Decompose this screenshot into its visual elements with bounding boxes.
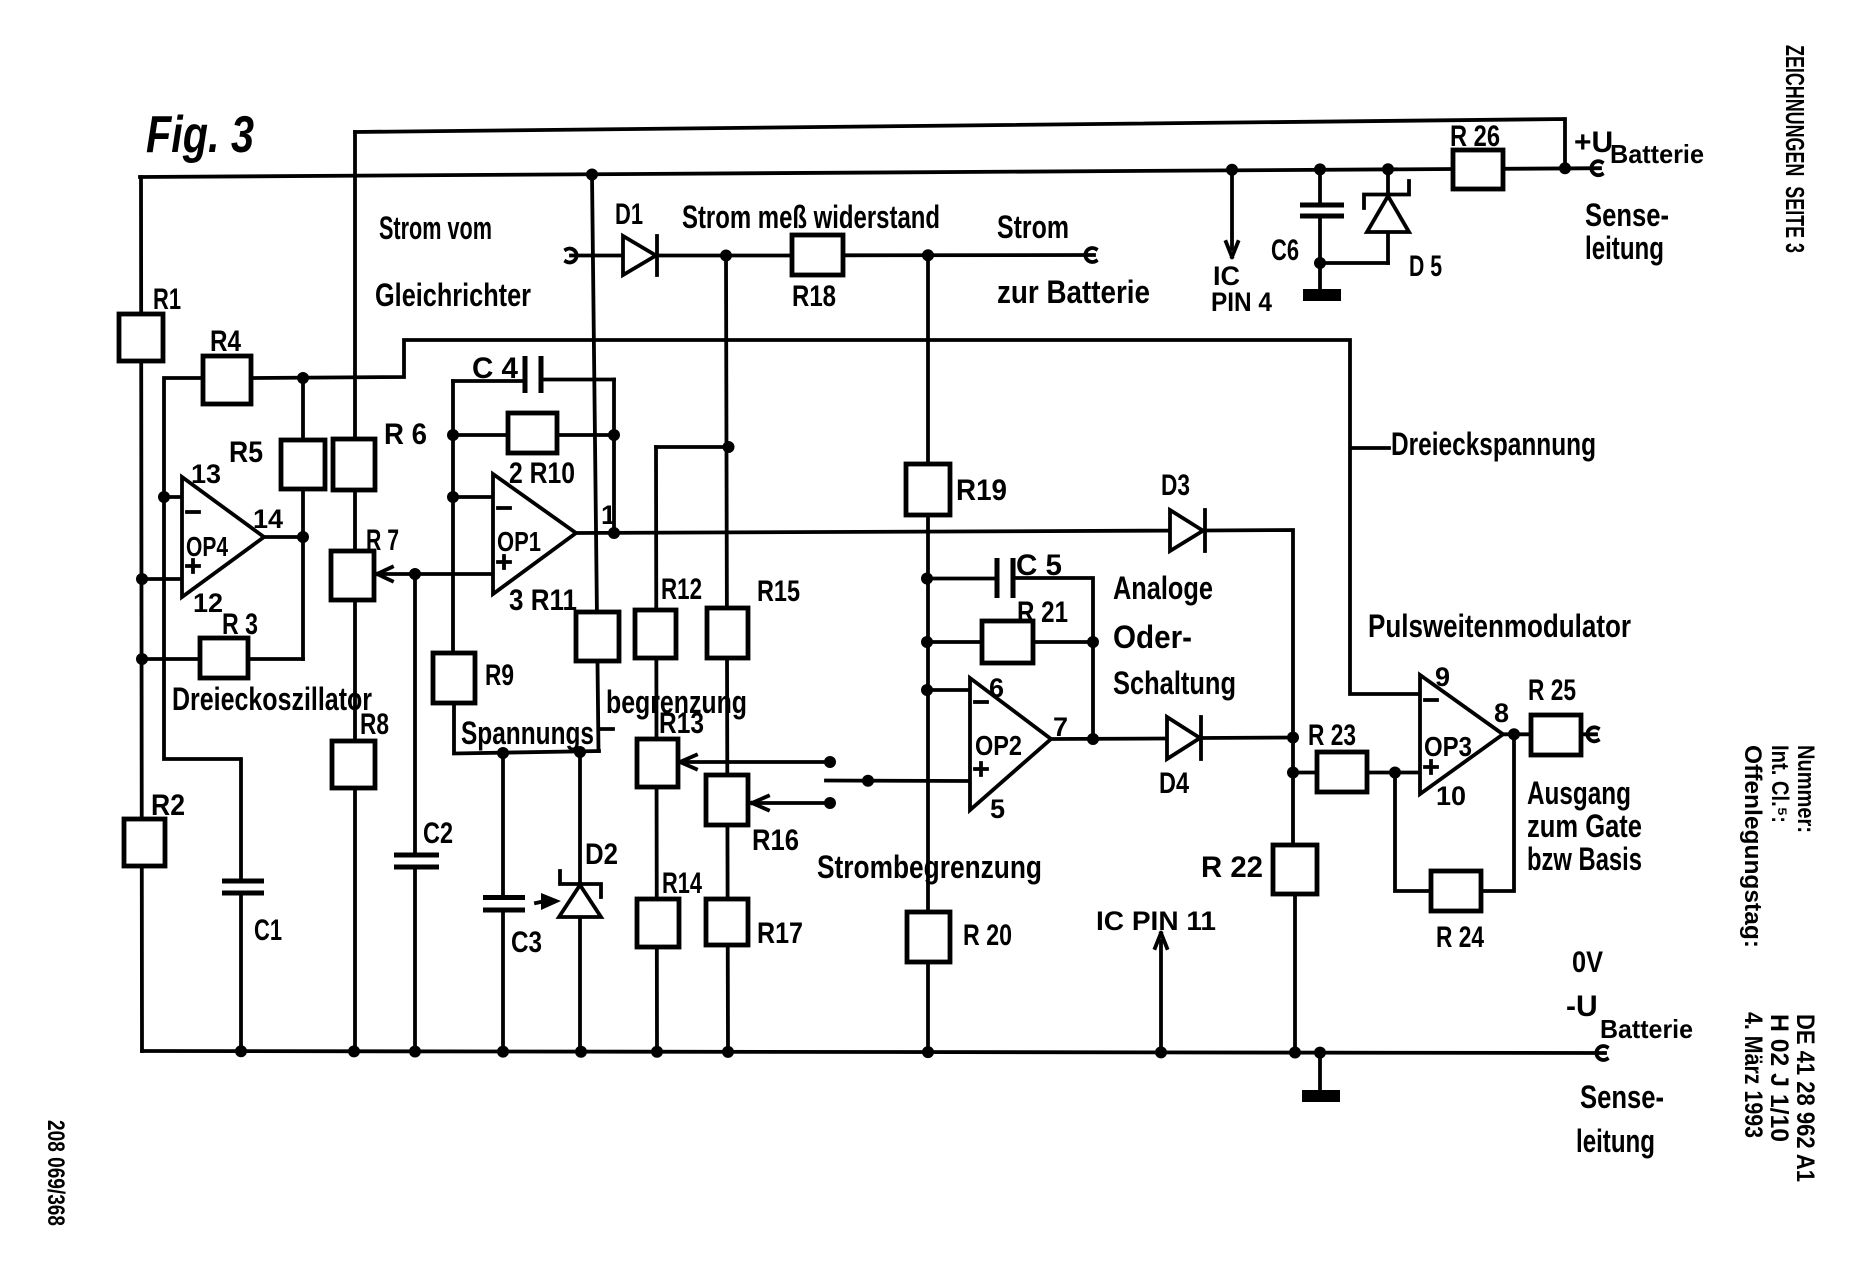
svg-text:zum Gate: zum Gate — [1527, 808, 1642, 844]
svg-text:R5: R5 — [229, 436, 263, 469]
svg-text:leitung: leitung — [1576, 1123, 1655, 1159]
junction R10 right lead — [608, 429, 620, 441]
wire R4 output to triangle-wave line and down to OP3 input — [251, 340, 1420, 694]
terminal rectifier input — [566, 249, 577, 263]
capacitor C5 — [997, 558, 1013, 598]
junction 0V rail IC PIN11 — [1155, 1046, 1167, 1058]
junction C6 bottom to D5 — [1314, 257, 1326, 269]
wire OP2 output to D4 — [1050, 737, 1167, 741]
svg-text:Spannungs: Spannungs — [461, 715, 594, 751]
wire R3 left lead — [142, 657, 200, 661]
terminal R25 output — [1587, 727, 1598, 741]
resistor R2 — [124, 819, 165, 866]
wire D4 cathode to OR node — [1201, 736, 1293, 740]
svg-text:ZEICHNUNGEN SEITE 3: ZEICHNUNGEN SEITE 3 — [1780, 45, 1810, 253]
capacitor C2 — [394, 855, 439, 867]
wire R12 top elbow connection — [656, 445, 729, 449]
svg-text:Strombegrenzung: Strombegrenzung — [817, 849, 1042, 885]
svg-text:Offenlegungstag:: Offenlegungstag: — [1739, 745, 1766, 948]
wire R13 wiper line — [680, 760, 830, 764]
resistor R23 — [1317, 752, 1367, 792]
svg-text:Dreieckoszillator: Dreieckoszillator — [172, 681, 372, 717]
svg-text:OP1: OP1 — [497, 526, 541, 557]
wire OP4 output — [263, 535, 303, 539]
svg-text:Sense-: Sense- — [1585, 197, 1669, 233]
wire R10 right lead — [557, 433, 614, 437]
svg-text:C6: C6 — [1271, 234, 1299, 267]
wire C4 loop top left — [453, 379, 525, 383]
resistor R17 — [706, 899, 748, 945]
svg-text:Nummer:: Nummer: — [1792, 745, 1819, 833]
svg-text:R 24: R 24 — [1436, 921, 1484, 954]
svg-text:Sense-: Sense- — [1580, 1079, 1664, 1115]
junction on OP2 plus input line — [862, 775, 874, 787]
svg-text:R18: R18 — [792, 280, 836, 313]
resistor R24 — [1431, 871, 1481, 911]
svg-text:Batterie: Batterie — [1600, 1014, 1693, 1044]
svg-text:D4: D4 — [1159, 767, 1189, 800]
wire C6 top lead — [1318, 169, 1322, 205]
junction terminal of R16 wiper line — [824, 797, 836, 809]
junction R21 left lead — [921, 636, 933, 648]
svg-text:7: 7 — [1053, 712, 1068, 742]
wire vertical x727 from D1 node through R15 R16 R17 — [726, 256, 728, 1052]
junction D2 top on limiter rail — [574, 746, 586, 758]
diode D1 — [623, 236, 657, 275]
junction R21 right lead — [1087, 636, 1099, 648]
wire C5 right lead and loop right rail — [1013, 578, 1093, 739]
resistor R21 — [982, 621, 1033, 663]
wire C2 vertical from wiper node — [413, 574, 417, 855]
junction +U rail to top feedback line — [1559, 162, 1571, 174]
junction R7 wiper node — [409, 568, 421, 580]
svg-text:zur Batterie: zur Batterie — [997, 274, 1150, 310]
junction C5 left lead — [921, 573, 933, 585]
wire vertical x593 from +U rail through R11 — [592, 175, 599, 752]
resistor R18 — [792, 235, 843, 275]
svg-text:Oder-: Oder- — [1113, 619, 1192, 655]
arrowhead into R16 wiper — [752, 796, 768, 810]
svg-text:R14: R14 — [662, 867, 702, 900]
wire IC PIN11 stub — [1159, 941, 1163, 1052]
svg-text:OP4: OP4 — [186, 531, 228, 562]
svg-text:Strom meß widerstand: Strom meß widerstand — [682, 199, 940, 235]
wire D2 bottom lead — [578, 917, 582, 1052]
svg-text:C3: C3 — [511, 926, 542, 959]
resistor R7 — [331, 551, 374, 600]
svg-text:4. März 1993: 4. März 1993 — [1739, 1012, 1767, 1138]
arrow marker at zener D2 — [536, 893, 561, 910]
svg-text:Fig. 3: Fig. 3 — [146, 106, 254, 164]
wire R25 output lead — [1581, 732, 1596, 736]
junction OP3 output — [1508, 728, 1520, 740]
svg-text:R16: R16 — [752, 824, 799, 857]
svg-text:Schaltung: Schaltung — [1113, 665, 1236, 701]
junction terminal of R13 wiper line — [824, 756, 836, 768]
svg-text:bzw Basis: bzw Basis — [1527, 841, 1642, 877]
wire C4 loop top right — [541, 378, 614, 382]
wire R4 left lead and vertical to OP4 inverting input and C1 — [164, 378, 241, 881]
svg-text:-U: -U — [1566, 990, 1598, 1023]
junction OP2 inverting input — [921, 684, 933, 696]
svg-text:D 5: D 5 — [1409, 250, 1442, 283]
resistor R19 — [906, 464, 950, 515]
svg-text:1: 1 — [601, 500, 616, 530]
wire +U battery rail (right of R26) — [1503, 166, 1600, 170]
svg-text:Gleichrichter: Gleichrichter — [375, 277, 531, 313]
junction OP4 output — [297, 531, 309, 543]
wire C2 bottom lead — [413, 867, 417, 1052]
svg-text:R 25: R 25 — [1528, 674, 1576, 707]
wire D1 cathode to R18 — [657, 254, 792, 258]
wire OP1 output line to D3 and down to analog OR node — [575, 531, 1170, 533]
wire C4 loop left rail down through R9 — [451, 381, 455, 655]
resistor R9 — [433, 653, 475, 703]
wire OP1 non-inverting input from R7 wiper node — [415, 572, 494, 576]
junction R4 to R5 node — [297, 372, 309, 384]
resistor R12 — [635, 610, 676, 658]
wire bottom 0V rail — [142, 1051, 1605, 1053]
junction OP2 output — [1087, 733, 1099, 745]
junction OP1 output — [608, 527, 620, 539]
arrowhead IC PIN4 down — [1226, 242, 1238, 257]
arrowhead into R7 wiper — [377, 567, 392, 581]
svg-text:Analoge: Analoge — [1113, 570, 1213, 606]
wire OP1 inverting input — [453, 495, 494, 499]
wire R21 left lead — [927, 640, 982, 644]
svg-text:R 26: R 26 — [1450, 120, 1500, 153]
terminal battery current output — [1085, 248, 1096, 262]
svg-text:10: 10 — [1436, 781, 1466, 811]
svg-text:9: 9 — [1435, 662, 1450, 692]
wire R10 left lead — [453, 433, 508, 437]
wire OP4 non-inverting input — [142, 577, 183, 581]
wire vertical x657 through R12 R13 R14 — [656, 447, 657, 1052]
junction OP4 inverting input — [158, 491, 170, 503]
junction OP1 inverting input — [447, 491, 459, 503]
svg-text:PIN 4: PIN 4 — [1211, 287, 1272, 317]
wire vertical x355 through R6 R7 R8 — [353, 132, 357, 1051]
svg-text:H 02 J 1/10: H 02 J 1/10 — [1765, 1014, 1793, 1142]
op-amp OP1 — [493, 474, 576, 594]
wire IC PIN4 stub — [1230, 170, 1234, 249]
wire R9 bottom lead and voltage-limit rail — [454, 655, 599, 754]
resistor R1 — [119, 314, 163, 361]
zener diode D2 — [559, 871, 601, 917]
svg-text:R 3: R 3 — [222, 608, 258, 641]
svg-text:6: 6 — [989, 673, 1004, 703]
wire C1 bottom lead — [239, 893, 243, 1051]
junction 0V rail R20 — [922, 1046, 934, 1058]
svg-text:R15: R15 — [757, 575, 800, 608]
junction R18 output node — [922, 249, 934, 261]
svg-text:13: 13 — [191, 459, 221, 489]
svg-text:R 21: R 21 — [1017, 596, 1068, 629]
resistor R26 — [1453, 150, 1503, 189]
wire OP3 output to R25 — [1502, 732, 1531, 736]
wire OP4 inverting input — [164, 495, 183, 499]
wire C3 bottom lead — [501, 910, 505, 1052]
svg-text:R9: R9 — [485, 659, 514, 692]
svg-text:C 5: C 5 — [1016, 549, 1062, 582]
svg-text:14: 14 — [253, 504, 283, 534]
svg-text:+U: +U — [1574, 126, 1613, 159]
terminal bottom rail end — [1596, 1046, 1607, 1060]
resistor R3 — [200, 638, 248, 678]
resistor R8 — [332, 741, 375, 788]
svg-text:Pulsweitenmodulator: Pulsweitenmodulator — [1368, 608, 1631, 644]
junction 0V rail C1 — [235, 1045, 247, 1057]
wire R24 right lead up to OP3 output — [1481, 734, 1514, 891]
svg-text:Strom vom: Strom vom — [379, 210, 492, 246]
svg-text:R 23: R 23 — [1308, 719, 1356, 752]
op-amp OP4 — [182, 477, 264, 597]
svg-text:R 7: R 7 — [366, 524, 399, 557]
resistor R20 — [907, 912, 950, 962]
junction analog OR node D4 — [1287, 732, 1299, 744]
junction D1 cathode node — [720, 250, 732, 262]
wire tick to Dreieckspannung label — [1352, 446, 1389, 450]
wire C6 bottom lead to ground and D5 — [1318, 216, 1322, 288]
capacitor C4 — [525, 356, 541, 393]
svg-text:R 6: R 6 — [384, 418, 427, 451]
junction +U rail to IC PIN4 — [1226, 164, 1238, 176]
wire C5 left lead — [927, 577, 997, 581]
svg-text:2 R10: 2 R10 — [509, 457, 575, 490]
resistor R13 — [637, 739, 678, 787]
wire top feedback line from node at x355 to upper right corner — [355, 119, 1565, 168]
svg-text:208 069/368: 208 069/368 — [42, 1120, 69, 1226]
ground near C6 — [1303, 289, 1341, 301]
svg-text:3 R11: 3 R11 — [509, 584, 577, 617]
svg-text:R 22: R 22 — [1201, 851, 1263, 884]
diode D4 — [1167, 717, 1201, 759]
junction OP3 plus input node — [1389, 767, 1401, 779]
svg-text:IC PIN 11: IC PIN 11 — [1096, 906, 1216, 936]
svg-text:leitung: leitung — [1585, 230, 1664, 266]
wire vertical x303 through R5 — [301, 378, 305, 659]
junction R10 left lead — [447, 429, 459, 441]
wire OP2 inverting input — [927, 688, 971, 692]
junction R3 left node — [136, 653, 148, 665]
svg-text:D2: D2 — [585, 838, 618, 871]
resistor R5 — [281, 440, 325, 489]
resistor R10 — [508, 413, 557, 453]
arrowhead IC PIN11 up — [1155, 933, 1167, 948]
wire D5 bottom lead — [1386, 231, 1390, 263]
wire R21 right lead — [1033, 640, 1093, 644]
zener diode D5 — [1364, 181, 1409, 232]
wire OP2 non-inverting input line — [826, 779, 971, 783]
resistor R22 — [1273, 845, 1317, 894]
svg-text:R 20: R 20 — [963, 919, 1012, 952]
wire C4 loop right rail down to OP1 output — [612, 380, 616, 534]
resistor R6 — [333, 439, 375, 490]
junction 0V rail R22 — [1289, 1047, 1301, 1059]
capacitor C6 — [1300, 205, 1344, 216]
junction R23 left node — [1287, 767, 1299, 779]
resistor R11 — [576, 612, 619, 661]
junction 0V rail C3 — [497, 1046, 509, 1058]
junction R12 top to x727 vertical — [723, 441, 735, 453]
svg-text:D3: D3 — [1161, 469, 1190, 502]
resistor R15 — [707, 608, 748, 658]
wire C3 vertical — [501, 753, 505, 897]
svg-text:Dreieckspannung: Dreieckspannung — [1391, 426, 1596, 462]
arrowhead into R13 wiper — [680, 755, 696, 769]
wire D3 cathode to right corner down to D4 node and R22 — [1205, 530, 1293, 845]
wire C6/D5 bottom link — [1320, 261, 1388, 265]
wire +U battery rail (left part) — [140, 169, 1453, 177]
wire R18 to battery current terminal — [843, 253, 1094, 257]
junction +U rail to R11 branch — [586, 169, 598, 181]
capacitor C3 — [483, 898, 525, 911]
resistor R25 — [1531, 715, 1581, 755]
wire R23 left lead — [1293, 771, 1317, 775]
svg-text:R12: R12 — [661, 573, 702, 606]
junction +U rail to D5 — [1382, 163, 1394, 175]
svg-text:begrenzung: begrenzung — [606, 684, 747, 720]
svg-text:5: 5 — [990, 794, 1005, 824]
wire R22 bottom lead — [1293, 894, 1297, 1053]
svg-text:R17: R17 — [757, 917, 803, 950]
wire D5 top lead — [1386, 169, 1390, 195]
svg-text:DE 41 28 962 A1: DE 41 28 962 A1 — [1791, 1014, 1819, 1182]
junction C3 top on limiter rail — [497, 747, 509, 759]
wire R16 wiper line — [752, 801, 830, 805]
wire R23 right lead to OP3 non-inverting input — [1367, 771, 1420, 775]
svg-text:C 4: C 4 — [472, 352, 518, 385]
svg-text:Ausgang: Ausgang — [1527, 775, 1631, 811]
capacitor C1 — [222, 881, 264, 893]
svg-text:12: 12 — [193, 588, 223, 618]
wire rectifier input terminal to D1 — [571, 254, 623, 258]
svg-text:8: 8 — [1494, 698, 1509, 728]
svg-text:D1: D1 — [615, 198, 643, 231]
junction OP4 non-inverting input — [136, 573, 148, 585]
terminal +U battery — [1591, 161, 1602, 175]
wire D2 vertical — [578, 752, 582, 884]
svg-text:OP2: OP2 — [975, 730, 1022, 761]
ground at bottom rail — [1302, 1090, 1340, 1102]
wire R3 right lead — [248, 657, 303, 661]
svg-text:C2: C2 — [423, 817, 453, 850]
wire R7 wiper — [380, 572, 415, 576]
svg-text:OP3: OP3 — [1424, 731, 1472, 762]
op-amp OP3 — [1420, 675, 1503, 794]
wire left main vertical through R1 R2 — [141, 177, 142, 1051]
svg-text:R1: R1 — [153, 283, 181, 316]
op-amp OP2 — [970, 678, 1051, 810]
junction 0V rail C2 — [409, 1046, 421, 1058]
resistor R4 — [203, 356, 251, 404]
svg-text:Int. Cl.⁵:: Int. Cl.⁵: — [1766, 745, 1793, 823]
junction +U rail to C6 — [1314, 163, 1326, 175]
svg-text:Batterie: Batterie — [1610, 139, 1704, 169]
junction 0V rail R14 — [651, 1046, 663, 1058]
svg-text:C1: C1 — [254, 914, 282, 947]
svg-text:Strom: Strom — [997, 209, 1069, 245]
wire bottom ground stub — [1318, 1053, 1322, 1089]
junction 0V rail ground — [1314, 1047, 1326, 1059]
svg-text:R2: R2 — [151, 789, 185, 822]
diode D3 — [1170, 510, 1205, 551]
junction 0V rail D2 — [575, 1046, 587, 1058]
junction 0V rail R17 — [722, 1046, 734, 1058]
wire vertical x928 from R18 node through R19 R20 — [926, 255, 930, 1052]
svg-text:R19: R19 — [956, 474, 1007, 507]
svg-text:R4: R4 — [210, 325, 241, 358]
svg-text:0V: 0V — [1572, 946, 1603, 979]
resistor R14 — [637, 899, 679, 947]
wire R24 loop from OP3 plus node — [1395, 773, 1431, 892]
resistor R16 — [706, 775, 748, 825]
junction 0V rail R8 — [348, 1045, 360, 1057]
